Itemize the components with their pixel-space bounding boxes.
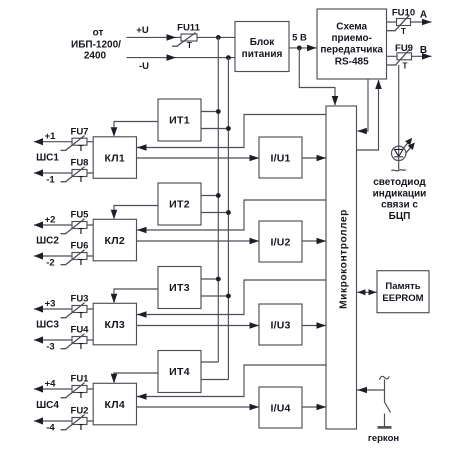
- svg-text:5 В: 5 В: [292, 33, 307, 44]
- wire ШС1 plus lead: [34, 141, 93, 143]
- block RS-485 transceiver (Схема приемо-передатчика RS-485): [317, 9, 387, 79]
- wire I/U3 to MC: [302, 325, 326, 327]
- arrow into MC (eeprom): [358, 289, 366, 295]
- svg-text:КЛ3: КЛ3: [105, 319, 126, 331]
- svg-text:T: T: [187, 41, 192, 50]
- fuse FU2: [72, 418, 87, 425]
- wire ШС4 plus lead: [34, 388, 93, 390]
- svg-text:приемо-: приемо-: [331, 33, 371, 44]
- svg-text:FU1: FU1: [71, 374, 90, 385]
- arrow ШС2 plus left: [34, 221, 43, 228]
- svg-text:T: T: [79, 227, 84, 236]
- svg-text:RS-485: RS-485: [335, 56, 369, 67]
- wire ИТ2 to КЛ2: [114, 206, 158, 219]
- arrow 5V right: [307, 45, 317, 52]
- arrow ШС4 minus left: [34, 417, 43, 424]
- block ИТ1: [158, 99, 201, 141]
- block КЛ1: [93, 137, 136, 179]
- arrow into КЛ2 right: [137, 227, 147, 234]
- wire ИТ4 to -rail: [201, 379, 228, 381]
- svg-text:+1: +1: [45, 131, 57, 142]
- wire ШС4 minus lead: [34, 420, 93, 422]
- svg-text:B: B: [420, 45, 427, 56]
- fuse FU3: [72, 306, 87, 313]
- wire ШС2 minus lead: [34, 255, 93, 257]
- wire ИТ3 to КЛ3: [114, 289, 158, 302]
- rail -U vertical: [227, 58, 229, 380]
- wire MC to КЛ3: [137, 280, 326, 315]
- svg-text:КЛ1: КЛ1: [105, 152, 126, 164]
- block КЛ4: [93, 383, 136, 425]
- svg-text:связи с: связи с: [381, 200, 418, 211]
- svg-text:индикации: индикации: [373, 189, 427, 200]
- svg-text:от: от: [93, 28, 104, 39]
- arrow ШС2 minus left: [34, 252, 43, 259]
- wire ИТ1 to +rail: [201, 111, 218, 113]
- junction dot +U rail: [216, 35, 221, 40]
- arrow down into КЛ4: [111, 374, 118, 384]
- arrow ШС3 minus left: [34, 336, 43, 343]
- arrow ШС1 plus left: [34, 138, 43, 145]
- LED emission arrow 1: [403, 143, 408, 149]
- wire ИТ2 to -rail: [201, 212, 228, 214]
- wire RS-485 to MC: [358, 79, 369, 131]
- svg-text:I/U1: I/U1: [270, 153, 290, 165]
- svg-text:КЛ4: КЛ4: [105, 399, 126, 411]
- block I/U1: [259, 137, 302, 178]
- svg-text:FU11: FU11: [177, 23, 200, 34]
- svg-text:Микроконтроллер: Микроконтроллер: [339, 209, 350, 309]
- wire to LED: [398, 65, 400, 147]
- arrow into I/U1: [250, 155, 260, 162]
- wire ИТ4 to +rail: [201, 361, 218, 363]
- junction dot ИТ3 +rail: [216, 277, 221, 282]
- block I/U3: [259, 304, 302, 345]
- svg-text:T: T: [79, 144, 84, 153]
- arrow ШС4 plus left: [34, 385, 43, 392]
- arrow into КЛ3 right: [137, 311, 147, 318]
- arrow down into КЛ1: [111, 127, 118, 137]
- wire КЛ1 to I/U1: [137, 157, 260, 159]
- arrow ШС3 plus left: [34, 305, 43, 312]
- wire ИТ3 to +rail: [201, 278, 218, 280]
- wire КЛ3 to I/U3: [137, 325, 260, 327]
- svg-text:ИТ1: ИТ1: [169, 115, 190, 127]
- block КЛ3: [93, 303, 136, 345]
- arrow B right: [422, 53, 432, 60]
- junction dot 5V: [297, 46, 302, 51]
- LED emission arrow 2: [406, 147, 411, 153]
- svg-text:FU4: FU4: [71, 325, 90, 336]
- wire КЛ4 to I/U4: [137, 406, 260, 408]
- arrow I/U1 into MC: [317, 155, 327, 162]
- wire ИТ2 to +rail: [201, 195, 218, 197]
- wire ИТ1 to КЛ1: [114, 122, 158, 136]
- junction dot ИТ1 -rail: [226, 126, 231, 131]
- svg-text:FU7: FU7: [71, 126, 89, 137]
- svg-text:КЛ2: КЛ2: [105, 235, 126, 247]
- arrow I/U3 into MC: [317, 322, 327, 329]
- wire ИТ4 to КЛ4: [114, 373, 158, 382]
- svg-text:геркон: геркон: [368, 433, 399, 444]
- arrow 5V down into MC: [332, 96, 339, 106]
- wire B output: [387, 55, 432, 57]
- fuse FU10: [397, 19, 411, 26]
- svg-text:ИТ4: ИТ4: [169, 366, 190, 378]
- fuse FU4: [72, 337, 87, 344]
- block I/U4: [259, 387, 302, 428]
- svg-text:-U: -U: [139, 61, 149, 72]
- svg-text:FU6: FU6: [71, 241, 89, 252]
- svg-text:ИБП-1200/: ИБП-1200/: [71, 40, 121, 51]
- block microcontroller (Микроконтроллер): [326, 106, 357, 429]
- arrow into EEPROM: [369, 289, 377, 295]
- svg-text:питания: питания: [242, 49, 283, 60]
- wire reed switch to MC: [357, 389, 385, 391]
- fuse FU1: [72, 386, 87, 393]
- svg-text:-1: -1: [46, 175, 55, 186]
- wire MC to RS-485: [357, 80, 379, 150]
- arrow into КЛ1 right: [137, 144, 147, 151]
- rail +U vertical: [217, 37, 219, 362]
- block power supply (Блок питания): [235, 22, 289, 72]
- fuse FU5: [72, 222, 87, 229]
- svg-text:T: T: [79, 423, 84, 432]
- svg-text:+3: +3: [45, 299, 56, 310]
- wire КЛ2 to I/U2: [137, 240, 260, 242]
- wire ИТ1 to -rail: [201, 128, 228, 130]
- svg-text:2400: 2400: [84, 51, 107, 62]
- wire ШС3 minus lead: [34, 339, 93, 341]
- svg-text:I/U4: I/U4: [270, 403, 290, 415]
- arrow into MC right (reed): [358, 387, 368, 394]
- junction dot ИТ1 +rail: [216, 109, 221, 114]
- LED indicator (светодиод): [392, 146, 406, 160]
- arrow up into RS-485: [375, 80, 382, 90]
- arrow into MC right (RS-485 rx): [357, 128, 367, 135]
- svg-text:T: T: [79, 258, 84, 267]
- wire 5V to microcontroller: [299, 48, 335, 105]
- block ИТ2: [158, 183, 201, 225]
- wire I/U1 to MC: [302, 157, 326, 159]
- wire I/U4 to MC: [302, 406, 326, 408]
- block ИТ3: [158, 267, 201, 309]
- fuse FU6: [72, 253, 87, 260]
- junction dot ИТ2 +rail: [216, 193, 221, 198]
- svg-text:ШС4: ШС4: [36, 400, 59, 411]
- svg-text:FU3: FU3: [71, 294, 89, 305]
- block КЛ2: [93, 219, 136, 260]
- wire MC to КЛ1: [137, 115, 326, 148]
- block EEPROM (Память EEPROM): [377, 271, 429, 313]
- svg-text:+2: +2: [45, 215, 56, 226]
- wire MC to КЛ4: [137, 365, 326, 397]
- svg-text:T: T: [79, 342, 84, 351]
- arrow I/U4 into MC: [317, 404, 327, 411]
- svg-text:Схема: Схема: [336, 21, 367, 32]
- reed switch (геркон): [380, 376, 390, 379]
- junction dot ИТ2 -rail: [226, 210, 231, 215]
- wire ШС3 plus lead: [34, 308, 93, 310]
- wire ШС1 minus lead: [34, 172, 93, 174]
- svg-text:-3: -3: [46, 342, 54, 353]
- svg-text:светодиод: светодиод: [373, 177, 426, 188]
- svg-text:FU2: FU2: [71, 406, 89, 417]
- arrow A right: [422, 19, 432, 26]
- arrow into I/U4: [250, 404, 260, 411]
- wire I/U2 to MC: [302, 240, 326, 242]
- fuse FU9: [397, 53, 412, 60]
- arrow -U right: [167, 54, 177, 61]
- wire ИТ3 to -rail: [201, 295, 228, 297]
- svg-text:FU10: FU10: [392, 8, 415, 19]
- svg-text:FU8: FU8: [71, 158, 89, 169]
- wire LED lower lead: [398, 160, 400, 170]
- svg-text:ШС1: ШС1: [36, 153, 59, 164]
- svg-text:-4: -4: [46, 423, 55, 434]
- svg-text:+U: +U: [136, 25, 149, 36]
- block ИТ4: [158, 351, 201, 393]
- arrow +U right: [167, 34, 177, 41]
- svg-text:Блок: Блок: [250, 37, 276, 48]
- svg-text:Память: Память: [385, 281, 420, 292]
- svg-text:ИТ2: ИТ2: [169, 199, 190, 211]
- svg-text:T: T: [401, 27, 406, 36]
- arrow I/U2 into MC: [317, 238, 327, 245]
- svg-text:ШС3: ШС3: [36, 320, 59, 331]
- fuse FU7: [72, 138, 87, 145]
- arrow into I/U3: [250, 322, 260, 329]
- svg-text:ШС2: ШС2: [36, 236, 59, 247]
- svg-text:T: T: [79, 391, 84, 400]
- svg-text:I/U2: I/U2: [270, 237, 290, 249]
- wire MC-EEPROM bidirectional: [357, 291, 377, 293]
- junction dot ИТ3 -rail: [226, 294, 231, 299]
- svg-text:T: T: [79, 175, 84, 184]
- block I/U2: [259, 221, 302, 262]
- svg-text:+4: +4: [45, 379, 57, 390]
- wire +U input: [127, 36, 236, 38]
- svg-text:A: A: [420, 10, 427, 21]
- LED common squiggle: [392, 170, 407, 171]
- svg-text:передатчика: передатчика: [320, 45, 383, 56]
- wire MC to КЛ2: [137, 200, 326, 230]
- wire 5V to RS-485: [289, 47, 317, 49]
- arrow ШС1 minus left: [34, 169, 43, 176]
- svg-text:EEPROM: EEPROM: [382, 293, 423, 304]
- fuse FU8: [72, 170, 87, 177]
- junction dot -U rail: [226, 55, 231, 60]
- wire A output: [387, 21, 432, 23]
- svg-text:FU5: FU5: [71, 210, 90, 221]
- arrow into I/U2: [250, 238, 260, 245]
- svg-text:ИТ3: ИТ3: [169, 282, 190, 294]
- svg-text:T: T: [79, 311, 84, 320]
- arrow into КЛ4 right: [137, 393, 147, 400]
- svg-text:БЦП: БЦП: [389, 211, 411, 222]
- arrow down into КЛ3: [111, 294, 118, 304]
- fuse FU11: [181, 34, 197, 41]
- svg-text:-2: -2: [46, 258, 54, 269]
- wire -U input: [127, 57, 236, 59]
- svg-text:T: T: [403, 61, 408, 70]
- wire ШС2 plus lead: [34, 224, 93, 226]
- arrow down into КЛ2: [111, 210, 118, 220]
- svg-text:I/U3: I/U3: [270, 320, 290, 332]
